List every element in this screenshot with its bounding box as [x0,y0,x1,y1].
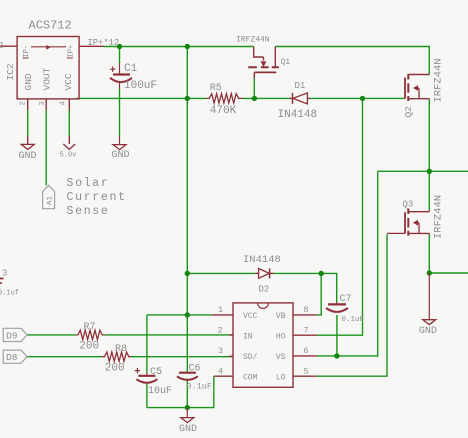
svg-text:D2: D2 [259,285,270,295]
svg-text:D9: D9 [6,330,18,341]
svg-text:SD/: SD/ [243,353,258,362]
svg-text:Current: Current [67,191,127,204]
svg-text:Solar: Solar [67,177,110,190]
svg-text:10uF: 10uF [148,386,172,397]
svg-text:IN: IN [243,332,253,341]
svg-text:Sense: Sense [67,205,110,218]
svg-text:0.1uF: 0.1uF [342,316,365,324]
svg-text:LO: LO [276,373,286,382]
svg-text:200: 200 [105,363,125,375]
svg-text:COM: COM [243,373,258,382]
svg-text:IN4148: IN4148 [278,109,318,121]
svg-text:IRFZ44N: IRFZ44N [236,36,270,45]
svg-text:2: 2 [20,101,28,105]
svg-text:C5: C5 [150,367,162,378]
svg-text:GND: GND [419,326,437,337]
svg-text:470K: 470K [210,105,237,117]
svg-text:200: 200 [79,341,99,353]
svg-text:100uF: 100uF [124,80,157,92]
svg-text:VOUT: VOUT [42,67,53,90]
svg-text:Q1: Q1 [281,58,291,67]
svg-text:C1: C1 [124,63,138,75]
svg-text:GND: GND [112,150,130,161]
svg-text:GND: GND [19,151,37,162]
svg-text:3: 3 [39,101,47,105]
svg-text:2: 2 [0,41,3,51]
svg-text:GND: GND [179,424,197,435]
svg-text:4: 4 [218,366,223,376]
svg-text:0.1uf: 0.1uf [0,290,19,298]
svg-text:3: 3 [218,346,223,356]
svg-text:R5: R5 [210,83,222,94]
svg-text:IRFZ44N: IRFZ44N [433,195,445,239]
svg-text:VCC: VCC [63,73,74,90]
svg-text:3: 3 [2,269,7,279]
svg-text:IC2: IC2 [5,63,16,80]
svg-text:IP+: IP+ [68,45,76,58]
svg-text:VB: VB [276,312,286,321]
svg-text:IRFZ44N: IRFZ44N [433,58,445,102]
svg-text:ACS712: ACS712 [29,19,72,33]
svg-text:5.0v: 5.0v [60,152,77,160]
svg-text:1: 1 [218,305,223,315]
svg-text:VS: VS [276,353,286,362]
svg-text:2: 2 [218,325,223,335]
svg-text:A1: A1 [47,195,55,205]
svg-text:HO: HO [276,332,286,341]
svg-text:Q3: Q3 [403,200,414,210]
svg-text:5: 5 [304,366,309,376]
svg-text:IP-: IP- [23,45,31,58]
svg-text:6: 6 [304,346,309,356]
svg-text:D1: D1 [295,81,306,91]
svg-text:D8: D8 [6,352,18,363]
svg-text:0.1uF: 0.1uF [187,382,213,392]
svg-text:8: 8 [304,305,309,315]
svg-text:GND: GND [23,73,34,90]
svg-text:C7: C7 [340,294,352,305]
svg-text:Q2: Q2 [403,106,414,118]
svg-text:4: 4 [60,101,68,105]
svg-text:R8: R8 [115,344,127,355]
svg-text:R7: R7 [84,322,96,333]
svg-text:7: 7 [304,325,309,335]
svg-text:C6: C6 [189,364,201,375]
svg-text:VCC: VCC [243,312,258,321]
svg-text:IP+*12: IP+*12 [88,38,120,48]
svg-text:IN4148: IN4148 [243,254,281,266]
